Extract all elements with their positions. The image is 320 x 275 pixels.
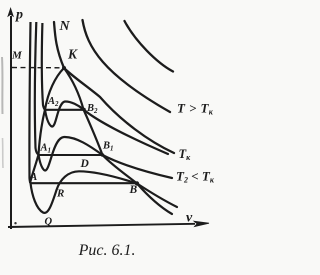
svg-text:K: K — [67, 47, 78, 62]
svg-text:v: v — [186, 211, 193, 226]
isotherm A2B2 (liquid branch) — [42, 23, 45, 110]
junction blob B — [135, 181, 139, 185]
dashed line M-K — [12, 67, 62, 69]
svg-text:T > Tк: T > Tк — [177, 101, 214, 117]
junction blob B1 — [101, 153, 105, 157]
svg-text:B: B — [129, 184, 138, 196]
AB gas branch — [137, 184, 172, 215]
tie line A2-B2 — [45, 109, 85, 111]
critical isotherm Tk : N - K - right — [54, 22, 174, 153]
svg-text:T2 < Tк: T2 < Tк — [176, 169, 215, 185]
svg-text:Рис. 6.1.: Рис. 6.1. — [78, 242, 136, 259]
junction blob B2 — [82, 108, 86, 112]
unlabeled top isotherm — [125, 21, 174, 72]
tie line A1-B1 — [38, 154, 103, 156]
svg-text:N: N — [59, 19, 71, 34]
isotherm T>Tk — [83, 20, 171, 112]
A1B1 gas branch — [103, 155, 173, 178]
isotherm A1B1 (liquid branch) — [35, 22, 39, 155]
p-axis — [8, 8, 14, 229]
AB loop: dip Q, rise R, hump D — [31, 171, 138, 213]
svg-text:A: A — [29, 171, 37, 183]
A2 loop: dip and hump — [45, 102, 84, 127]
v-axis — [8, 221, 209, 227]
scan streak left edge — [1, 57, 4, 114]
svg-text:M: M — [11, 50, 23, 62]
isotherm AB / T2 (liquid branch) — [29, 22, 30, 183]
binodal dome left: K-A2-A1-A — [30, 68, 64, 183]
dome tail below B — [137, 184, 177, 208]
binodal dome right: K-B2-B1-B — [64, 68, 137, 184]
tie line A-B — [30, 182, 137, 184]
A1 loop: dip and hump — [39, 137, 103, 171]
svg-text:p: p — [15, 8, 23, 23]
junction blob K — [62, 66, 66, 70]
svg-text:Q: Q — [45, 217, 53, 228]
svg-text:D: D — [80, 158, 90, 170]
A2B2 gas branch — [84, 110, 169, 155]
axis tick dot — [14, 222, 16, 224]
svg-text:R: R — [56, 188, 64, 200]
